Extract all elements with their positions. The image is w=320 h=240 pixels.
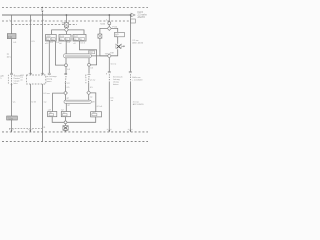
- svg-text:A32/15: A32/15: [138, 16, 146, 19]
- wire E left branch: [53, 93, 64, 111]
- label left margin: [0, 75, 4, 79]
- svg-text:G65: G65: [92, 112, 95, 114]
- K1a end ticks: [48, 73, 51, 74]
- wire C right branch: [111, 28, 117, 32]
- cable shield E1: [64, 54, 92, 58]
- connector C1 marks: [7, 53, 12, 59]
- W3 end ticks: [41, 73, 45, 76]
- svg-text:0.5 ro: 0.5 ro: [111, 63, 117, 66]
- fuse F3: [98, 34, 102, 38]
- W3 tap arrow: [41, 11, 43, 13]
- W4 bus dot: [66, 14, 68, 16]
- wire to splice C: [108, 25, 110, 27]
- box1b: [48, 112, 57, 117]
- wire K3a path: [80, 41, 97, 65]
- bus 31 branch (dashed): [12, 24, 78, 26]
- svg-text:14: 14: [52, 39, 54, 41]
- svg-text:F10: F10: [8, 36, 13, 39]
- splice F diamond: [87, 91, 91, 95]
- splice B circle: [88, 58, 91, 66]
- W5 bus junction: [107, 129, 112, 132]
- wire below splice B: [88, 66, 90, 73]
- ground junction ticks: [64, 130, 68, 132]
- svg-text:0.5 li: 0.5 li: [81, 43, 86, 45]
- wire E down: [65, 95, 67, 100]
- splice C diamond: [107, 26, 111, 30]
- connector box B dashed edge: [85, 75, 87, 85]
- motor M1 x-box: [116, 44, 125, 49]
- label W6 bottom: [133, 101, 144, 106]
- svg-text:S244: S244: [100, 23, 106, 25]
- bus X end box: [131, 19, 136, 23]
- fuse F1: [7, 34, 16, 39]
- svg-text:a5: a5: [20, 79, 22, 81]
- svg-text:T10a: T10a: [7, 118, 13, 120]
- svg-text:85: 85: [80, 39, 82, 41]
- label W5 bottom: [111, 98, 115, 102]
- W2 end ticks: [29, 73, 33, 76]
- label E1: [88, 51, 94, 54]
- wire W5 lower: [108, 58, 110, 72]
- wire W1 mid: [11, 39, 13, 74]
- center resume arrow: [65, 83, 71, 85]
- wire B5 down: [117, 37, 119, 44]
- box2b: [61, 112, 70, 117]
- wire center dashed: [65, 76, 68, 83]
- svg-text:br bl: br bl: [32, 100, 37, 103]
- wire W1 upper: [11, 15, 13, 34]
- wire K2a down: [65, 41, 67, 54]
- wire W2 lower: [30, 84, 32, 132]
- svg-text:sw: sw: [44, 102, 47, 104]
- connector box W1 dashed edge: [7, 75, 9, 85]
- svg-text:+ ro L05/20: + ro L05/20: [132, 80, 143, 82]
- splice S1 diamond: [64, 28, 68, 32]
- svg-text:links: links: [14, 83, 18, 85]
- connector arrow at bus 15 end: [131, 13, 135, 17]
- splice A circle: [65, 58, 68, 67]
- label W6: [132, 40, 143, 45]
- wire W3 lower: [41, 84, 43, 141]
- W1 resume arrow: [11, 84, 13, 86]
- svg-text:12: 12: [47, 39, 49, 41]
- cable shield E2: [64, 100, 91, 103]
- W1 end ticks: [10, 73, 16, 76]
- label module left: [20, 74, 23, 81]
- wire K1a down: [48, 41, 50, 73]
- svg-text:30: 30: [74, 39, 76, 41]
- wire W3 upper: [41, 13, 43, 75]
- wire W5 drop: [108, 15, 110, 22]
- svg-text:A32 L05/20: A32 L05/20: [132, 42, 143, 45]
- svg-text:hinten: hinten: [113, 83, 118, 86]
- svg-text:30: 30: [60, 39, 62, 41]
- fuse F2: [64, 23, 68, 28]
- wire W5 dashed: [108, 74, 110, 81]
- wire C left branch: [100, 28, 107, 34]
- W3 tap dot: [42, 7, 44, 9]
- wire E2 to box2b: [65, 103, 67, 111]
- W6 bus dot: [130, 14, 132, 16]
- svg-text:◂b C: ◂b C: [7, 55, 12, 58]
- svg-text:A32 L05/20: A32 L05/20: [133, 103, 144, 106]
- branch dashed segment: [9, 127, 42, 129]
- W1 bus junction: [9, 129, 14, 132]
- svg-text:0.5 c4: 0.5 c4: [97, 106, 103, 108]
- relay box K3: [73, 34, 86, 41]
- wire S1 right branch: [68, 30, 84, 35]
- svg-text:Innen: Innen: [46, 81, 51, 83]
- wire center lower: [65, 84, 67, 91]
- splice E diamond: [64, 91, 68, 95]
- W2 bus junction: [28, 129, 33, 132]
- wire E1 to splice D: [91, 55, 107, 57]
- wire W6 dashed: [130, 74, 132, 82]
- wire M1 down: [111, 49, 117, 56]
- bus 31a (bottom dashed 2): [2, 140, 148, 142]
- relay box K1: [46, 34, 57, 41]
- wire B lower: [88, 83, 90, 91]
- splice D diamond: [107, 54, 111, 58]
- wire K1b to splice A: [55, 41, 64, 65]
- bus X (dashed): [2, 20, 129, 22]
- wire S1 left branch: [52, 30, 65, 35]
- bus 31 (bottom dashed 1): [2, 131, 148, 133]
- connector box T1: [7, 116, 18, 120]
- W6 bus junction: [128, 129, 133, 132]
- relay box K2: [59, 34, 71, 41]
- wire S1 down: [65, 32, 67, 35]
- box B5: [115, 32, 125, 37]
- wire W1 lower: [11, 86, 13, 132]
- svg-text:G6: G6: [49, 112, 51, 114]
- wire box3b return: [67, 117, 96, 122]
- wire W1 dashed section: [11, 76, 13, 85]
- bus 15 (solid): [2, 14, 130, 16]
- label module right: [46, 75, 56, 83]
- wire F right branch to box3b: [91, 93, 96, 112]
- W5 bus dot: [108, 14, 110, 16]
- svg-text:87: 87: [66, 39, 68, 41]
- wire W6 bottom: [130, 83, 132, 132]
- bus 30 (top dashed): [2, 7, 148, 9]
- junction circle G: [64, 117, 67, 126]
- svg-text:0.5 sw: 0.5 sw: [43, 93, 50, 95]
- W6 end ticks: [129, 72, 132, 73]
- box3b: [91, 112, 102, 117]
- wire box1b return: [52, 117, 64, 123]
- center wire end ticks: [64, 73, 67, 74]
- wire ground to bus: [65, 130, 67, 132]
- svg-text:G7: G7: [63, 112, 65, 114]
- svg-text:ws sw: ws sw: [90, 79, 96, 81]
- wire W6 upper: [130, 15, 132, 72]
- wire below splice A: [65, 67, 67, 75]
- wire B dashed: [88, 76, 90, 83]
- wire F3 down: [100, 38, 108, 56]
- ground G x-box: [63, 126, 68, 131]
- wire W2 upper: [30, 15, 32, 75]
- module box dashed: [27, 75, 46, 84]
- label W6 mid: [132, 77, 143, 81]
- wire W4 drop: [65, 15, 67, 23]
- W5 end ticks: [106, 72, 111, 76]
- label W1 block: [14, 75, 22, 85]
- wire W5 bottom: [108, 82, 110, 132]
- B end ticks: [85, 75, 91, 78]
- label right block: [113, 77, 123, 86]
- wire F down: [88, 95, 90, 100]
- thermofuse circle: [108, 22, 111, 25]
